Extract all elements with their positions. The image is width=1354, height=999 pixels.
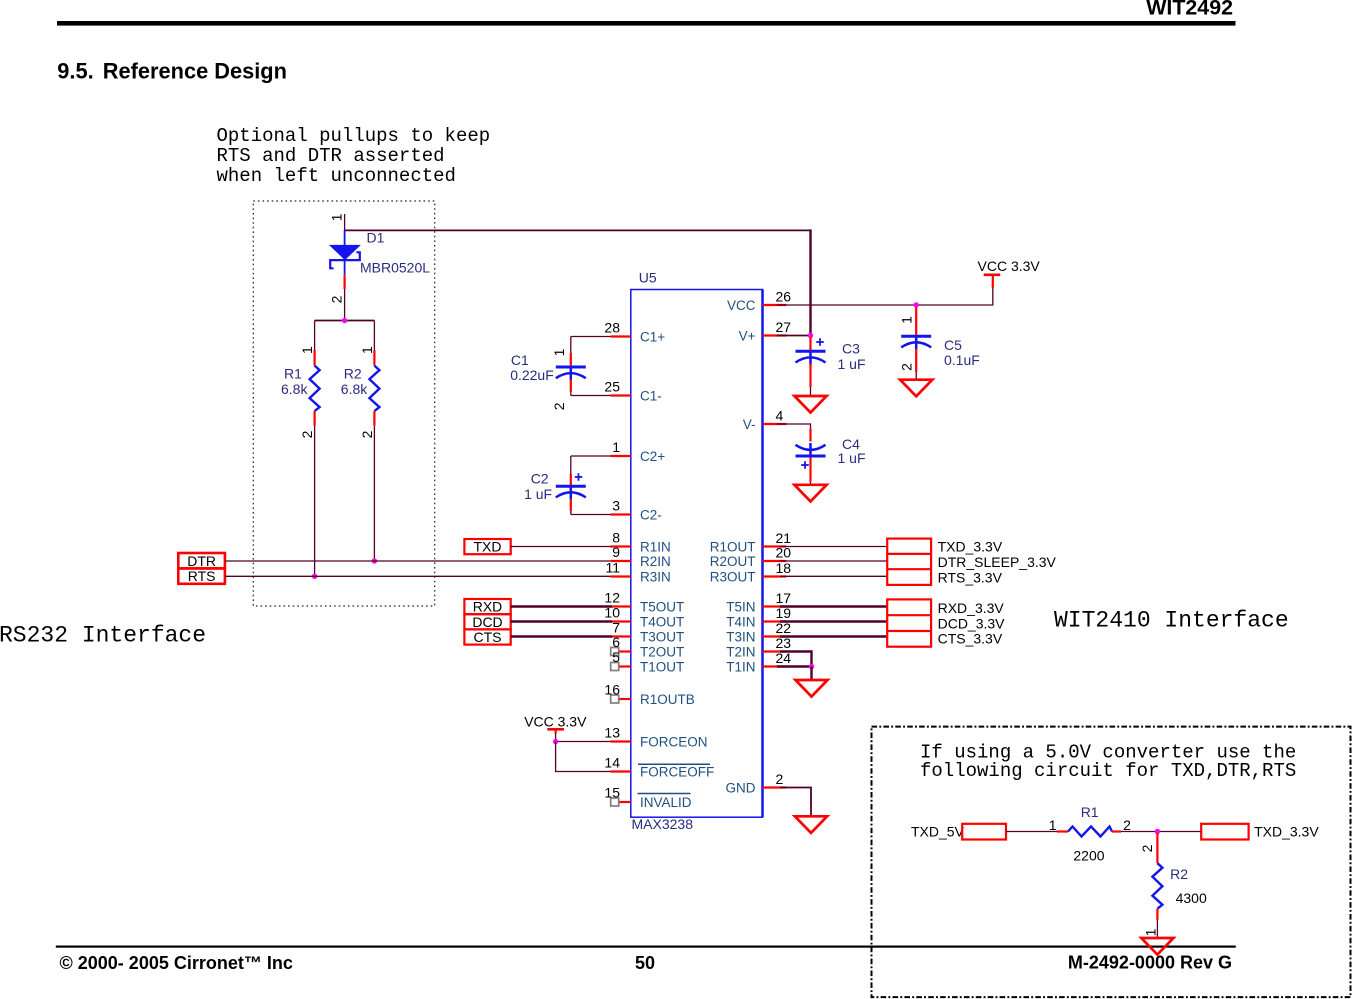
pin 25 C1- (left) (604, 379, 661, 404)
wire R2 to DTR net (373, 426, 375, 561)
svg-text:Reference Design: Reference Design (103, 59, 287, 84)
svg-text:T4IN: T4IN (726, 615, 755, 630)
svg-text:2: 2 (299, 430, 315, 438)
port box TXD (464, 539, 510, 555)
svg-text:DCD: DCD (472, 614, 502, 630)
svg-text:2: 2 (1139, 844, 1155, 852)
svg-text:1: 1 (329, 213, 345, 221)
svg-text:RTS and DTR asserted: RTS and DTR asserted (217, 145, 445, 167)
port box RTS (178, 568, 225, 584)
ground below C5 (900, 380, 932, 397)
pin 24 T1IN (right) (726, 650, 791, 675)
svg-text:12: 12 (604, 590, 620, 606)
svg-text:R2IN: R2IN (640, 554, 671, 569)
svg-text:15: 15 (604, 785, 620, 801)
svg-text:1: 1 (1143, 928, 1159, 936)
svg-text:28: 28 (604, 320, 620, 336)
wire R3OUT to RTS_3.3V (780, 575, 887, 577)
svg-text:1: 1 (299, 346, 315, 354)
pin 18 R3OUT (right) (710, 560, 792, 585)
svg-text:T2IN: T2IN (726, 645, 755, 660)
pin 8 R1IN (left) (611, 530, 671, 555)
svg-text:RS232 Interface: RS232 Interface (0, 623, 206, 649)
svg-text:14: 14 (604, 755, 620, 771)
capacitor C4 1uF polarized (flipped) (796, 436, 866, 485)
wire T1IN pin 24 to junction (777, 665, 812, 667)
svg-text:C1-: C1- (640, 389, 662, 404)
svg-text:RXD_3.3V: RXD_3.3V (938, 600, 1005, 616)
svg-text:VCC 3.3V: VCC 3.3V (978, 258, 1041, 274)
port box TXD_3.3V (1201, 824, 1248, 840)
svg-text:M-2492-0000 Rev G: M-2492-0000 Rev G (1068, 953, 1232, 973)
section heading 9.5 Reference Design (57, 59, 287, 84)
wire GND pin 2 to ground (780, 788, 811, 817)
port box CTS (464, 629, 510, 645)
svg-text:C5: C5 (944, 337, 962, 353)
svg-text:T5OUT: T5OUT (640, 600, 684, 615)
svg-text:9.5.: 9.5. (57, 59, 93, 84)
ground below C4 (794, 485, 826, 502)
svg-text:TXD_5V: TXD_5V (911, 824, 965, 840)
svg-text:DTR: DTR (187, 553, 216, 569)
svg-text:T3IN: T3IN (726, 630, 755, 645)
junction D1/R1/R2 (342, 318, 347, 323)
svg-text:11: 11 (605, 560, 620, 576)
resistor R1 2200 (converter) (1049, 804, 1131, 864)
svg-text:WIT2492: WIT2492 (1146, 0, 1233, 20)
svg-text:1 uF: 1 uF (524, 486, 552, 502)
wire C1 bottom to pin 25 (571, 392, 611, 395)
wire bus joining R1 and R2 tops (315, 320, 375, 322)
svg-text:RTS: RTS (188, 568, 216, 584)
svg-text:18: 18 (776, 560, 792, 576)
pin 14 FORCEOFF (left) (604, 755, 714, 780)
wire pin 27 V+ to C3 (777, 335, 811, 337)
wire VCC rail to pin 26 (777, 288, 993, 305)
pin 2 GND (right) (726, 771, 787, 796)
svg-text:T2OUT: T2OUT (640, 645, 684, 660)
wire C2 bottom to pin 3 (571, 511, 611, 515)
diode D1 MBR0520L (329, 213, 431, 303)
converter note text (920, 741, 1296, 782)
svg-text:VCC: VCC (727, 298, 756, 313)
svg-text:C2+: C2+ (640, 449, 665, 464)
ground below GND pin (795, 816, 827, 833)
wire D1 pin1 to V+ rail (net over top) (345, 214, 811, 336)
svg-text:R1OUT: R1OUT (710, 540, 756, 555)
svg-text:2: 2 (1123, 817, 1131, 833)
wire TXD net to pin 8 (511, 546, 611, 548)
dash-dot enclosure 5V converter note (872, 727, 1351, 998)
svg-text:DCD_3.3V: DCD_3.3V (938, 615, 1006, 631)
pin 3 C2- (left) (611, 498, 662, 523)
svg-text:25: 25 (604, 379, 620, 395)
junction R1/R2 divider (1155, 829, 1160, 834)
svg-text:V-: V- (743, 417, 756, 432)
svg-text:R1IN: R1IN (640, 540, 671, 555)
svg-text:T5IN: T5IN (726, 600, 755, 615)
svg-text:V+: V+ (739, 329, 756, 344)
pin 5 T1OUT (left) (611, 649, 685, 675)
svg-text:when left unconnected: when left unconnected (217, 165, 456, 187)
svg-text:50: 50 (635, 953, 655, 973)
svg-text:17: 17 (776, 590, 792, 606)
resistor R1 6.8k (281, 321, 320, 439)
pin 1 C2+ (left) (611, 439, 666, 464)
svg-text:2200: 2200 (1073, 848, 1104, 864)
svg-text:VCC 3.3V: VCC 3.3V (524, 714, 587, 730)
svg-text:13: 13 (604, 725, 620, 741)
pin 28 C1+ (left) (604, 320, 665, 345)
pin 27 V+ (right) (739, 319, 792, 344)
svg-text:C2-: C2- (640, 508, 662, 523)
power symbol VCC 3.3V at FORCEON (524, 714, 587, 735)
svg-text:6.8k: 6.8k (281, 381, 308, 397)
capacitor C1 0.22uF (510, 348, 586, 410)
dotted enclosure for optional pullups (253, 201, 434, 606)
pin 17 T5IN (right) (726, 590, 791, 615)
page header rule (57, 21, 1236, 26)
svg-text:9: 9 (612, 544, 620, 560)
pin 9 R2IN (left) (611, 544, 671, 569)
pin 11 R3IN (left) (605, 560, 670, 585)
junction R2/DTR (372, 558, 377, 563)
wire RTS net to pin 11 (225, 575, 611, 577)
wire DCD net to pin 10 (511, 620, 612, 622)
svg-text:1: 1 (359, 346, 375, 354)
connector block TXD/DTR_SLEEP/RTS 3.3V (887, 539, 931, 585)
pin 22 T3IN (right) (726, 620, 791, 645)
svg-text:MBR0520L: MBR0520L (360, 260, 430, 276)
wire CTS net to pin 7 (511, 635, 612, 637)
op-amp / transceiver IC U5 MAX3238 body (631, 290, 763, 818)
svg-text:0.1uF: 0.1uF (944, 352, 980, 368)
capacitor C2 1uF polarized (524, 471, 586, 512)
wire D1 cathode down to R1/R2 bus (344, 289, 346, 321)
svg-text:TXD_3.3V: TXD_3.3V (938, 539, 1003, 555)
svg-text:6.8k: 6.8k (341, 381, 368, 397)
wire down to ground (810, 667, 812, 681)
svg-text:TXD_3.3V: TXD_3.3V (1254, 824, 1319, 840)
port box TXD_5V (962, 824, 1006, 840)
pin 13 FORCEON (left) (604, 725, 707, 750)
svg-text:RXD: RXD (473, 599, 503, 615)
svg-text:4300: 4300 (1176, 890, 1207, 906)
svg-text:1 uF: 1 uF (838, 356, 866, 372)
pin 10 T4OUT (left) (604, 605, 684, 630)
pin 20 R2OUT (right) (710, 545, 792, 570)
footer rule (56, 946, 1236, 948)
wire R1 to TXD_3.3V port (1121, 831, 1201, 833)
wire pin 28 to C1 top (571, 337, 611, 354)
junction FORCEON/FORCEOFF (553, 739, 558, 744)
svg-text:RTS_3.3V: RTS_3.3V (938, 569, 1003, 585)
connector block RXD/DCD/CTS 3.3V (887, 599, 931, 646)
svg-text:3: 3 (612, 498, 620, 514)
svg-text:WIT2410 Interface: WIT2410 Interface (1054, 608, 1289, 634)
port box DTR (178, 553, 225, 569)
wire DTR net to pin 9 (225, 560, 611, 562)
junction V+/C3/D1 (808, 333, 813, 338)
svg-text:DTR_SLEEP_3.3V: DTR_SLEEP_3.3V (938, 554, 1057, 570)
pin 23 T2IN (right) (726, 635, 791, 660)
svg-text:2: 2 (359, 430, 375, 438)
port box RXD (464, 599, 510, 615)
note text optional pullups (217, 125, 491, 187)
svg-text:C1+: C1+ (640, 330, 665, 345)
pin 6 T2OUT (left) (611, 634, 685, 660)
ground below T1IN (795, 680, 827, 697)
resistor R2 4300 (converter) (1139, 833, 1207, 936)
wire to FORCEOFF pin 14 (556, 742, 611, 772)
svg-text:CTS_3.3V: CTS_3.3V (938, 631, 1003, 647)
wire pin 4 V- to C4 (777, 424, 811, 442)
capacitor C3 1uF polarized (796, 337, 866, 396)
junction R1/RTS (312, 574, 317, 579)
svg-text:R3IN: R3IN (640, 570, 671, 585)
port box DCD (464, 614, 510, 630)
wire R2 to ground (1156, 920, 1158, 938)
svg-text:1: 1 (899, 316, 915, 324)
svg-text:CTS: CTS (474, 629, 502, 645)
wire R1 to RTS net (314, 426, 316, 577)
wire T2IN/T1IN to ground (780, 652, 812, 667)
svg-text:1 uF: 1 uF (838, 450, 866, 466)
svg-text:4: 4 (776, 408, 784, 424)
svg-text:GND: GND (726, 781, 756, 796)
wire VCC to FORCEON pin 13 (556, 734, 611, 742)
pin 21 R1OUT (right) (710, 530, 792, 555)
svg-text:R2OUT: R2OUT (710, 554, 756, 569)
svg-text:26: 26 (776, 289, 792, 305)
power symbol VCC 3.3V (top right) (978, 258, 1041, 288)
pin 15 INVALID (left) (604, 785, 691, 811)
junction VCC/C5 (914, 302, 919, 307)
svg-text:2: 2 (551, 402, 567, 410)
pin 16 R1OUTB (left) (604, 682, 694, 708)
svg-text:6: 6 (612, 634, 620, 650)
svg-text:MAX3238: MAX3238 (632, 816, 694, 832)
svg-text:INVALID: INVALID (640, 795, 692, 810)
svg-text:D1: D1 (367, 230, 385, 246)
svg-text:Optional pullups to keep: Optional pullups to keep (217, 125, 491, 147)
svg-text:T1IN: T1IN (726, 660, 755, 675)
svg-text:T1OUT: T1OUT (640, 660, 684, 675)
pin 19 T4IN (right) (726, 605, 791, 630)
svg-text:T4OUT: T4OUT (640, 615, 684, 630)
svg-text:27: 27 (776, 319, 792, 335)
svg-text:R1OUTB: R1OUTB (640, 692, 695, 707)
pin 12 T5OUT (left) (604, 590, 684, 615)
ground below R2 (1141, 938, 1173, 955)
svg-text:T3OUT: T3OUT (640, 630, 684, 645)
svg-text:R1: R1 (284, 366, 302, 382)
wire T4IN to DCD_3.3V (780, 620, 887, 622)
svg-text:C2: C2 (531, 471, 549, 487)
wire TXD_5V to R1 (1006, 831, 1057, 833)
capacitor C5 0.1uF (899, 307, 980, 380)
junction T1IN/ground (809, 664, 814, 669)
svg-text:2: 2 (329, 295, 345, 303)
svg-text:C3: C3 (842, 341, 860, 357)
pin 26 VCC (right) (727, 289, 791, 314)
svg-text:1: 1 (551, 348, 567, 356)
svg-text:R2: R2 (1170, 866, 1188, 882)
wire T5IN to RXD_3.3V (780, 605, 887, 607)
svg-text:16: 16 (604, 682, 620, 698)
wire pin 1 to C2 top (571, 456, 611, 474)
svg-text:2: 2 (776, 771, 784, 787)
svg-text:TXD: TXD (474, 539, 502, 555)
svg-text:5: 5 (612, 649, 620, 665)
pin 7 T3OUT (left) (611, 620, 685, 645)
wire R2OUT to DTR_SLEEP_3.3V (780, 560, 887, 562)
svg-text:R2: R2 (344, 366, 362, 382)
svg-text:U5: U5 (639, 270, 657, 286)
pin 4 V- (right) (743, 408, 787, 433)
svg-text:FORCEOFF: FORCEOFF (640, 765, 714, 780)
wire RXD net to pin 12 (511, 605, 612, 607)
svg-text:0.22uF: 0.22uF (510, 367, 554, 383)
wire T3IN to CTS_3.3V (780, 635, 887, 637)
svg-text:R1: R1 (1081, 804, 1099, 820)
ground below C3 (794, 396, 826, 413)
svg-text:R3OUT: R3OUT (710, 570, 756, 585)
svg-text:2: 2 (899, 363, 915, 371)
svg-text:1: 1 (612, 439, 620, 455)
svg-text:1: 1 (1049, 817, 1057, 833)
resistor R2 6.8k (341, 321, 380, 439)
svg-text:following circuit for TXD,DTR,: following circuit for TXD,DTR,RTS (920, 760, 1296, 782)
svg-text:C1: C1 (511, 352, 529, 368)
svg-text:© 2000- 2005 Cirronet™ Inc: © 2000- 2005 Cirronet™ Inc (60, 953, 293, 973)
wire R1OUT to TXD_3.3V (780, 546, 887, 548)
svg-text:FORCEON: FORCEON (640, 735, 708, 750)
